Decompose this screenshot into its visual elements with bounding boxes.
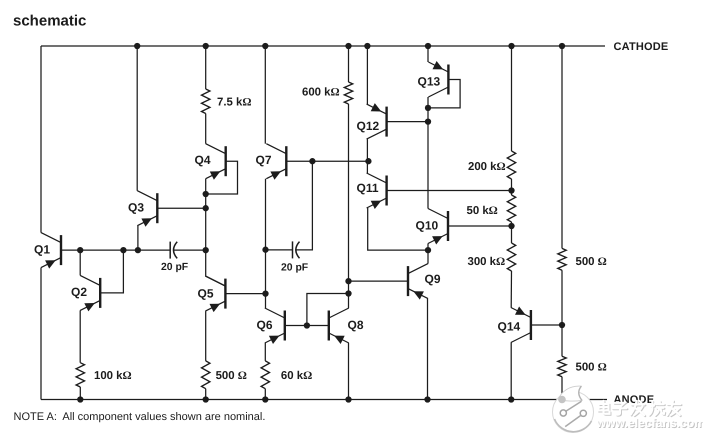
svg-text:Q8: Q8: [348, 318, 364, 332]
junction Q7 emitter / C2 node: [262, 247, 268, 253]
svg-text:schematic: schematic: [13, 13, 86, 30]
junction Q3 base node: [203, 205, 209, 211]
wire Q3-base node to C1 node: [205, 208, 207, 250]
wire Q8 emitter to anode rail: [348, 343, 350, 400]
svg-text:7.5 kΩ: 7.5 kΩ: [217, 97, 251, 109]
wire Q10 base: [448, 225, 512, 227]
svg-text:20 pF: 20 pF: [281, 262, 308, 273]
watermark CJK char zi: [615, 404, 626, 409]
junction Q13 collector node: [425, 105, 431, 111]
svg-text:Q13: Q13: [418, 74, 441, 88]
wire Q10 emitter drop: [427, 244, 429, 251]
wire Q3 emitter drop: [137, 226, 139, 250]
transistor Q12: [385, 107, 387, 137]
wire Q14 base: [531, 324, 562, 326]
transistor Q10: [447, 211, 449, 241]
wire Q11 emitter loop: [368, 208, 428, 250]
wire Q7 base bus (y=161): [286, 160, 368, 162]
wire 500a to anode rail: [205, 389, 207, 400]
junction Q4 emitter node: [203, 191, 209, 197]
transistor Q14: [530, 310, 532, 340]
watermark crescent: [559, 386, 583, 401]
wire base bus Q1 (y=250): [61, 249, 170, 251]
wire Q1 emitter to anode rail: [40, 268, 42, 400]
wire 500c to anode rail: [561, 377, 563, 400]
wire Q14 collector to anode rail: [510, 343, 512, 400]
wire Q3 collector riser: [136, 46, 138, 191]
svg-text:CATHODE: CATHODE: [614, 41, 669, 53]
wire 500b to 500c: [561, 270, 563, 356]
wire Q12 collector drop: [366, 139, 368, 161]
transistor Q4: [224, 146, 226, 176]
junction Q8 collector node: [345, 290, 351, 296]
resistor 500 (under Q5): [202, 361, 210, 389]
resistor 100k: [76, 363, 84, 387]
wire Q5 base: [225, 293, 265, 295]
wire Q8 collector riser: [348, 294, 350, 309]
svg-text:500 Ω: 500 Ω: [576, 362, 607, 374]
junction anode rail / 500a: [203, 396, 209, 402]
wire Q8 base: [307, 325, 329, 327]
resistor 60k: [261, 361, 269, 389]
wire C1 to node (y=250): [174, 249, 206, 251]
wire Q6 base: [285, 325, 307, 327]
junction anode rail / Q9: [424, 396, 430, 402]
watermark ring left: [560, 410, 566, 416]
svg-text:Q12: Q12: [357, 119, 380, 133]
svg-text:Q2: Q2: [71, 285, 87, 299]
resistor 200k: [507, 151, 515, 179]
transistor Q9: [407, 266, 409, 296]
watermark CJK char shao: [652, 402, 654, 410]
wire Q13 base loop: [428, 80, 460, 108]
wire 200k-50k junction: [511, 179, 513, 195]
junction top rail / 500b: [559, 43, 565, 49]
junction top rail / Q13: [425, 43, 431, 49]
junction anode rail / Q14: [508, 396, 514, 402]
junction C1 / Q5 collector node: [203, 247, 209, 253]
wire 7.5k top lead: [205, 46, 207, 89]
wire Q4 base loop: [206, 161, 238, 194]
svg-text:Q9: Q9: [425, 272, 441, 286]
junction top rail / 200k: [508, 43, 514, 49]
resistor 50k: [507, 195, 515, 222]
wire 200k top lead: [511, 46, 513, 151]
wire C1 node to Q5 collector: [206, 250, 226, 286]
wire cathode top rail: [41, 45, 605, 47]
wire Q5-base node to Q6 collector: [265, 294, 267, 308]
junction anode rail / 500c: [559, 396, 565, 402]
wire 500b top lead: [561, 46, 563, 248]
wire Q6 emitter to 60k: [264, 343, 266, 361]
wire Q13 collector drop: [427, 97, 429, 108]
resistor 300k: [507, 243, 515, 271]
wire Q2 base riser: [100, 250, 123, 293]
wire Q4 emitter drop: [205, 179, 207, 194]
transistor Q3: [156, 193, 158, 223]
resistor 7.5k: [202, 89, 210, 114]
wire Q2 emitter to 100k: [79, 310, 81, 362]
wire Q3 base: [157, 207, 205, 209]
transistor Q7: [285, 146, 287, 176]
svg-text:60 kΩ: 60 kΩ: [281, 370, 312, 382]
watermark plug line lower: [565, 416, 580, 427]
watermark CJK char you: [668, 404, 681, 406]
watermark CJK char fa: [632, 404, 645, 406]
junction top rail / Q3: [134, 43, 140, 49]
svg-text:500 Ω: 500 Ω: [216, 370, 247, 382]
svg-text:100 kΩ: 100 kΩ: [94, 370, 132, 382]
wire 50k-300k junction: [511, 222, 513, 243]
transistor Q8: [328, 311, 330, 341]
watermark plug line upper: [566, 401, 582, 411]
junction top rail / Q7: [262, 43, 268, 49]
wire Q13 emitter riser: [427, 46, 429, 62]
wire Q8 base riser loop: [307, 294, 349, 326]
resistor 500 (right upper): [558, 248, 566, 270]
wire Q5 emitter to 500: [205, 311, 207, 361]
wire Q7 collector riser: [264, 46, 266, 144]
wire 300k to Q14 emitter: [510, 271, 512, 308]
wire C2 right riser to Q7 base node: [296, 161, 312, 250]
watermark logo circle: [553, 392, 594, 433]
svg-text:Q14: Q14: [498, 320, 521, 334]
wire Q9-base node to Q8 node: [348, 281, 350, 293]
junction Q6-Q8 base node: [304, 322, 310, 328]
wire C2 node to Q5 base node: [265, 250, 267, 294]
wire C2 left: [266, 249, 293, 251]
svg-text:600 kΩ: 600 kΩ: [302, 87, 340, 99]
watermark CJK char dian: [599, 405, 609, 412]
junction top rail / 7.5k: [203, 43, 209, 49]
wire Q7 emitter drop: [265, 179, 267, 250]
junction Q5 base node: [262, 290, 268, 296]
junction anode rail / Q8: [345, 396, 351, 402]
wire Q13 node to Q12 base node: [427, 108, 429, 122]
capacitor C1 20pF: [169, 242, 171, 259]
junction 50k-300k / Q10 base: [508, 223, 514, 229]
wire 100k to anode rail: [79, 387, 81, 400]
svg-text:Q5: Q5: [198, 286, 214, 300]
transistor Q11: [385, 176, 387, 206]
junction Q2 base / base bus: [120, 247, 126, 253]
svg-text:200 kΩ: 200 kΩ: [468, 161, 506, 173]
wire Q9 emitter to anode rail: [427, 299, 429, 400]
svg-text:Q7: Q7: [256, 153, 272, 167]
wire Q11 collector riser: [366, 161, 368, 173]
svg-text:Q3: Q3: [128, 200, 144, 214]
svg-text:Q1: Q1: [34, 242, 50, 256]
junction Q2 collector / base bus: [77, 247, 83, 253]
junction top rail / 600k: [345, 43, 351, 49]
wire Q2 collector riser: [79, 250, 81, 275]
watermark gray rail dot: [558, 396, 566, 404]
svg-text:NOTE A: All component values: NOTE A: All component values shown are n…: [14, 411, 266, 423]
wire Q12 emitter riser: [366, 46, 368, 104]
svg-text:Q4: Q4: [195, 153, 211, 167]
wire Q9 base: [349, 280, 409, 282]
junction Q12 base node: [425, 118, 431, 124]
resistor 600k: [344, 82, 352, 104]
wire node 194 to Q3 base node: [205, 194, 207, 208]
svg-text:Q6: Q6: [257, 318, 273, 332]
wire Q12 base: [387, 121, 428, 123]
svg-text:50 kΩ: 50 kΩ: [467, 205, 498, 217]
wire Q11 base: [387, 190, 512, 192]
svg-text:Q10: Q10: [416, 218, 439, 232]
svg-text:Q11: Q11: [357, 181, 379, 195]
capacitor C2 20pF: [292, 241, 294, 258]
wire 7.5k to Q4 collector: [205, 114, 207, 144]
svg-text:300 kΩ: 300 kΩ: [468, 256, 506, 268]
wire Q12-base node to Q10 collector: [427, 122, 429, 209]
svg-text:500 Ω: 500 Ω: [576, 256, 607, 268]
svg-text:20 pF: 20 pF: [161, 262, 188, 273]
wire 60k to anode rail: [264, 389, 266, 400]
junction 200k-50k: [508, 187, 514, 193]
wire anode bottom rail: [41, 399, 607, 401]
transistor Q13: [447, 65, 449, 95]
watermark ring right: [580, 410, 586, 416]
junction anode rail / 60k: [262, 396, 268, 402]
wire node 250 to Q9 collector: [427, 250, 429, 264]
wire Q1 collector to cathode rail: [40, 46, 42, 233]
junction Q10-Q11 emitter node: [425, 247, 431, 253]
transistor Q2: [99, 278, 101, 308]
junction Q12-Q11 node: [365, 158, 371, 164]
junction anode rail / 100k: [77, 396, 83, 402]
resistor 500 (right lower): [558, 356, 566, 376]
junction Q14 base / 500 mid: [559, 322, 565, 328]
junction top rail / Q12: [364, 43, 370, 49]
transistor Q6: [284, 311, 286, 341]
transistor Q5: [224, 279, 226, 309]
junction Q3 emitter / base bus: [135, 247, 141, 253]
transistor Q1: [60, 235, 62, 265]
svg-text:www.elecfans.com: www.elecfans.com: [596, 416, 703, 430]
junction C2 riser / Q7 base bus: [309, 158, 315, 164]
wire 600k to Q9 base node: [348, 104, 350, 281]
wire 600k top lead: [348, 46, 350, 82]
junction Q9 base / 600k: [345, 278, 351, 284]
